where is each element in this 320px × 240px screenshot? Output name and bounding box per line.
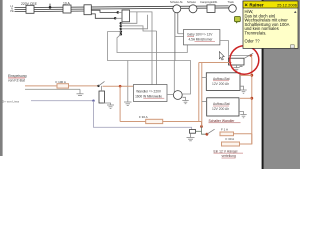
ground battery2	[239, 112, 247, 118]
wire switch to wandler	[103, 85, 134, 87]
ground battery1	[240, 86, 247, 93]
comment icon	[235, 17, 241, 24]
label L1 N PE	[10, 4, 14, 13]
wire bus N	[15, 8, 229, 10]
ground under drop	[124, 102, 132, 106]
svg-text:25.12.2006: 25.12.2006	[277, 2, 298, 7]
ground under relay K2	[233, 65, 242, 71]
comment note box	[243, 1, 298, 48]
fuse F30A-b box	[222, 137, 240, 146]
wire bus PE	[15, 10, 92, 13]
svg-text:✕ Rainer: ✕ Rainer	[244, 3, 264, 8]
ground stub on feed minus wire	[77, 89, 84, 95]
wire socket1 drop a	[174, 13, 176, 61]
wire battery2 left stub	[202, 101, 207, 103]
wire K1 contact b to wandler feed	[121, 26, 157, 31]
svg-text:verteilung: verteilung	[222, 154, 236, 158]
svg-text:Campingkühlb.: Campingkühlb.	[200, 0, 218, 4]
svg-text:220V CEE: 220V CEE	[21, 2, 38, 6]
wire ground branch drop	[127, 61, 129, 103]
ground right of meter	[182, 97, 188, 103]
socket circle 1	[173, 5, 181, 13]
wire orange under relay K2	[199, 62, 232, 64]
node K1 contact b	[120, 25, 123, 28]
wire relay K1 to wandler drop left	[130, 12, 153, 85]
svg-text:Schalter Wandler: Schalter Wandler	[209, 119, 236, 123]
svg-text:Trennrelais.: Trennrelais.	[245, 31, 267, 36]
transformer circle	[229, 5, 237, 13]
wire feed from FZ battery minus	[25, 88, 80, 90]
gaby charger box	[184, 30, 220, 45]
wire coil bottom to ground	[104, 103, 111, 105]
fuse F100A box	[56, 80, 69, 88]
junction dot blue	[92, 100, 94, 102]
ground under relay K4	[187, 133, 195, 141]
svg-text:Oder ??: Oder ??	[245, 38, 261, 43]
relay K4 coil box	[190, 130, 196, 134]
page right border	[262, 0, 264, 169]
svg-text:F 100 A: F 100 A	[56, 80, 66, 84]
wire orange battery bus left a	[198, 63, 200, 122]
label 12V distribution	[214, 149, 244, 158]
wire wandler to meter	[167, 94, 173, 96]
battery box 2	[207, 98, 239, 116]
mouse cursor	[219, 52, 224, 61]
wire orange branch down	[119, 86, 121, 121]
red underline Einspeisung	[8, 77, 25, 79]
wire socket1 drop b	[177, 13, 179, 34]
junction dot red hinge	[206, 133, 209, 136]
svg-text:von FZ-Bat: von FZ-Bat	[8, 78, 25, 82]
CEE inlet box X1	[26, 5, 34, 13]
wire orange battery bus left b	[201, 63, 203, 127]
svg-text:Schuko-St.: Schuko-St.	[170, 0, 183, 4]
junction dot orange T	[119, 85, 122, 88]
svg-text:F 1 A: F 1 A	[221, 128, 228, 132]
fridge box	[207, 5, 215, 12]
app background right of page	[264, 0, 300, 169]
node K1 contact a	[120, 22, 123, 25]
wire relay K1 to wandler drop right	[156, 31, 158, 85]
svg-text:1600 W Mikrowelle: 1600 W Mikrowelle	[135, 95, 162, 99]
wire gaby feed a	[175, 36, 184, 38]
left gray strip	[0, 0, 3, 156]
wire A relay K1 to gaby charger	[117, 34, 187, 52]
wire gaby feed b	[178, 33, 184, 35]
svg-text:F 30 A: F 30 A	[226, 137, 235, 141]
wire coil top stub	[101, 86, 103, 91]
label Einspeisung	[8, 74, 27, 82]
node K1 contact c	[120, 28, 123, 31]
wire D+ to relay K4	[94, 101, 192, 130]
switch arm K1	[121, 22, 123, 26]
red circle annotation	[230, 46, 259, 74]
wire K1 pin1 stub	[118, 11, 122, 13]
node K1 contact e	[120, 33, 123, 36]
node stub on L1	[49, 4, 51, 8]
fuse F1A box	[220, 128, 234, 136]
svg-text:Schuko: Schuko	[187, 0, 196, 4]
wire bus L1	[15, 6, 229, 8]
switch S1 arm	[99, 81, 105, 86]
junction dot battery 1	[250, 74, 253, 77]
wire fuse F30A to vertical	[163, 122, 202, 127]
meter circle	[173, 91, 182, 100]
wire orange to fuse F30A	[120, 121, 146, 123]
page background	[0, 0, 300, 169]
switch S1 dot	[97, 85, 99, 87]
node K1 pin1	[117, 11, 120, 14]
junction dot on K2 input	[250, 54, 253, 57]
wire node to switch hinge	[202, 127, 207, 135]
fuse F30A box	[139, 115, 163, 124]
svg-text:Gaby 16V/=> 12V: Gaby 16V/=> 12V	[187, 33, 213, 37]
wire F1A to bus	[234, 133, 252, 135]
wire battery2 right to bus	[240, 97, 252, 99]
svg-text:Aufbau-Bat: Aufbau-Bat	[213, 77, 230, 81]
svg-text:10 A: 10 A	[63, 1, 71, 5]
wire relay K4 to node	[196, 130, 202, 132]
wire battery1 left stub	[202, 77, 207, 79]
relay K3 coil box	[99, 91, 105, 103]
svg-text:4,5A Ministromer: 4,5A Ministromer	[189, 38, 214, 42]
junction dot on L1	[49, 6, 52, 9]
wire K1 contact c hook	[121, 15, 148, 29]
svg-text:12V 200 Ah: 12V 200 Ah	[212, 82, 229, 86]
ground right of coil K3	[107, 105, 114, 108]
wire orange relay K2 output down	[250, 56, 253, 144]
breaker box	[84, 5, 91, 15]
wire gaby output to relay K2	[220, 41, 251, 59]
wire meter loop left vertical	[173, 61, 175, 93]
svg-text:Wandler => 220V: Wandler => 220V	[136, 89, 162, 93]
wire D+ line	[31, 100, 94, 102]
fuse 10A box	[63, 5, 71, 13]
svg-text:Trafo: Trafo	[228, 0, 235, 4]
svg-text:F 30 A: F 30 A	[139, 115, 148, 119]
relay K2 switch arm	[245, 53, 254, 58]
junction dot red K4 top	[200, 125, 203, 128]
wire fuse to switch	[69, 85, 99, 87]
svg-text:PE: PE	[10, 9, 14, 13]
node K1 contact d	[120, 30, 123, 32]
wandler box	[134, 85, 168, 102]
wire bus down to F30A-b	[240, 134, 252, 144]
svg-text:Aufbau-Bat: Aufbau-Bat	[213, 102, 230, 106]
svg-text:D+ von Lima: D+ von Lima	[2, 99, 19, 103]
wire battery1 right to bus	[240, 74, 252, 76]
relay K1 coil box	[122, 10, 130, 22]
wire K1 pin2 stub	[115, 17, 122, 19]
junction dot battery 2	[250, 97, 253, 100]
node K1 pin2	[114, 17, 117, 20]
wire feed from FZ battery plus	[25, 85, 57, 87]
relay K2 coil box	[229, 58, 245, 65]
wire bus aux to relay K1	[91, 14, 115, 18]
switch S2 arm	[207, 129, 215, 134]
svg-text:12V 200 Ah: 12V 200 Ah	[212, 107, 229, 111]
svg-text:Ein 12 V Hängel: Ein 12 V Hängel	[214, 149, 238, 153]
wire B relay K1 to meter loop	[108, 32, 191, 94]
battery box 1	[206, 73, 240, 91]
socket circle 2	[189, 5, 197, 13]
wire K1 contact a hook	[121, 12, 137, 23]
